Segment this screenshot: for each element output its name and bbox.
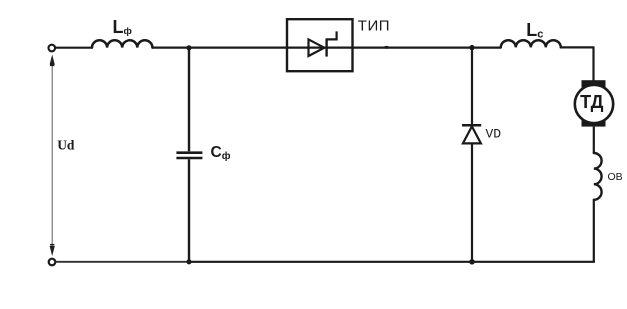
wire through thyristor box bbox=[287, 46, 353, 48]
wire node B down to diode bbox=[471, 48, 473, 124]
voltage arrow Ud bbox=[50, 55, 55, 257]
wire diode to node C bbox=[471, 145, 473, 262]
svg-text:ОВ: ОВ bbox=[608, 171, 623, 183]
svg-text:VD: VD bbox=[486, 127, 502, 142]
wire node A to thyristor box bbox=[189, 46, 287, 48]
bottom rail left segment (terminal to capacitor) bbox=[55, 261, 189, 263]
thyristor VS (symbol inside box) bbox=[309, 31, 337, 56]
wire node B to Lc bbox=[472, 46, 501, 48]
wire motor to field winding bbox=[593, 127, 595, 153]
node A (top capacitor junction) bbox=[186, 45, 191, 50]
inductor Lc bbox=[501, 40, 561, 47]
inductor Lф bbox=[92, 40, 152, 47]
svg-text:Ud: Ud bbox=[57, 138, 75, 153]
wire thyristor box to node B bbox=[353, 46, 473, 48]
wire down to motor bbox=[592, 46, 594, 80]
svg-text:ТИП: ТИП bbox=[358, 18, 390, 35]
terminal X2 (bottom-left input) bbox=[49, 259, 56, 266]
wire capacitor top lead bbox=[188, 48, 190, 152]
node D (bottom capacitor junction) bbox=[186, 259, 191, 264]
node C (bottom diode junction) bbox=[469, 259, 475, 265]
wire capacitor bottom lead bbox=[188, 159, 190, 261]
field winding ОВ bbox=[594, 153, 602, 200]
thyristor box U1 (ТИП) bbox=[287, 19, 353, 71]
wire top-left (terminal to Lф) bbox=[55, 47, 92, 49]
diode VD bbox=[462, 125, 481, 143]
svg-text:ТД: ТД bbox=[580, 92, 604, 112]
capacitor Cф bbox=[176, 153, 202, 158]
junction artifact dot on wire bbox=[384, 46, 389, 49]
bottom rail right segment bbox=[189, 261, 595, 263]
wire Lф to node A bbox=[152, 46, 189, 48]
wire field winding to bottom rail bbox=[593, 200, 595, 262]
wire Lc to top-right corner bbox=[561, 46, 594, 48]
node B (top diode junction) bbox=[469, 45, 474, 50]
terminal X1 (top-left input) bbox=[49, 45, 56, 52]
motor ТД bbox=[575, 80, 613, 126]
